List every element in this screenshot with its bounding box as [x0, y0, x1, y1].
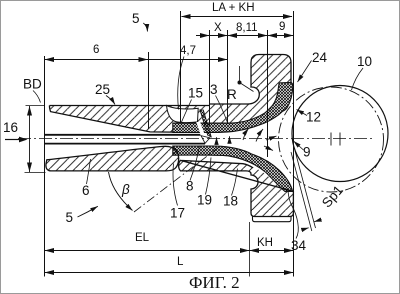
needle tube lower wall	[45, 143, 206, 145]
ball solid circle (part 10)	[292, 86, 388, 182]
svg-text:KH: KH	[257, 237, 273, 249]
outline: lower holder block	[179, 160, 294, 216]
extension line x267.5	[267, 30, 269, 157]
body lower wedge (part 6) hatched	[46, 146, 179, 171]
flow arrow 1	[216, 137, 218, 144]
dimension LA + KH	[182, 16, 293, 18]
extension line x209.5	[209, 30, 211, 126]
lower insert bottom edge	[285, 190, 294, 192]
dimension 6 / 4,7	[45, 59, 228, 61]
extension line x227.5	[227, 30, 229, 124]
ball alternate position dash-dot circle	[279, 87, 384, 192]
needle bevel face dense hatch	[200, 110, 211, 137]
label 4,7 leader	[178, 57, 184, 110]
svg-text:6: 6	[93, 44, 99, 56]
dimension KH	[250, 250, 294, 252]
flow arrow 5	[266, 136, 277, 140]
needle tube upper wall	[45, 134, 201, 136]
centerline axis dash-dot	[18, 138, 374, 140]
outline: flange	[210, 55, 292, 105]
svg-text:EL: EL	[135, 232, 150, 244]
flow arrow 6	[264, 146, 273, 151]
svg-text:L: L	[177, 256, 184, 268]
lower holder block (parts 18, KH) hatched	[179, 160, 294, 216]
svg-text:6: 6	[82, 183, 90, 198]
svg-text:8,11: 8,11	[236, 22, 258, 34]
extension line left x45	[44, 56, 46, 277]
svg-text:R: R	[227, 87, 237, 102]
flange upper holder hatched	[210, 55, 292, 124]
svg-text:17: 17	[170, 206, 185, 221]
dimension L	[45, 272, 294, 274]
svg-text:ФИГ. 2: ФИГ. 2	[189, 273, 240, 292]
ball center ticks	[331, 133, 340, 146]
svg-text:24: 24	[312, 50, 328, 65]
nozzle insert upper half (part 3) dense hatch	[173, 82, 293, 132]
inflow arrow 16	[5, 139, 21, 141]
svg-text:34: 34	[291, 238, 307, 253]
beta angle arc arrow	[109, 172, 133, 211]
flow arrow 2	[229, 136, 231, 143]
extension line x293	[293, 11, 295, 277]
dimension row X / 8,11 / 9	[196, 35, 294, 37]
outline: body upper wedge	[49, 106, 209, 133]
extension line x180.5	[180, 11, 182, 123]
svg-text:3: 3	[210, 82, 218, 97]
svg-text:X: X	[214, 22, 222, 34]
svg-text:BD: BD	[23, 77, 42, 92]
svg-text:16: 16	[3, 120, 18, 135]
svg-text:10: 10	[357, 54, 372, 69]
dimension BD vertical	[29, 106, 31, 172]
svg-text:9: 9	[303, 145, 311, 160]
white pocket chamber in body	[167, 105, 199, 122]
svg-text:12: 12	[306, 110, 321, 125]
Sp1 gap arrows	[302, 228, 309, 230]
foot under lower block	[253, 217, 292, 222]
beta cone dash-dot line	[134, 147, 219, 212]
R radius center dot and leader	[238, 81, 242, 85]
svg-text:9: 9	[279, 21, 285, 33]
extension line x148	[148, 52, 150, 129]
Sp1 gap lines	[291, 152, 312, 231]
needle tip	[201, 136, 210, 144]
svg-text:β: β	[121, 182, 130, 197]
extension line x249.5 lower	[249, 222, 251, 277]
svg-text:LA + KH: LA + KH	[212, 2, 255, 14]
nozzle insert lower half (parts 8,19) dense hatch	[173, 146, 293, 191]
svg-text:8: 8	[186, 179, 194, 194]
interface seam body and flange	[209, 104, 211, 106]
svg-text:18: 18	[223, 194, 238, 209]
flow arrow 3	[243, 129, 249, 141]
svg-text:19: 19	[197, 193, 212, 208]
svg-text:5: 5	[132, 11, 140, 26]
white gap at needle bevel	[196, 122, 205, 135]
svg-text:5: 5	[66, 210, 74, 225]
flow arrow 4	[256, 129, 263, 142]
dimension EL	[45, 250, 250, 252]
svg-text:15: 15	[188, 86, 203, 101]
svg-text:4,7: 4,7	[180, 45, 196, 57]
outline: body lower wedge	[46, 146, 179, 171]
body upper wedge (part 25) hatched	[49, 106, 209, 133]
svg-text:25: 25	[95, 82, 110, 97]
